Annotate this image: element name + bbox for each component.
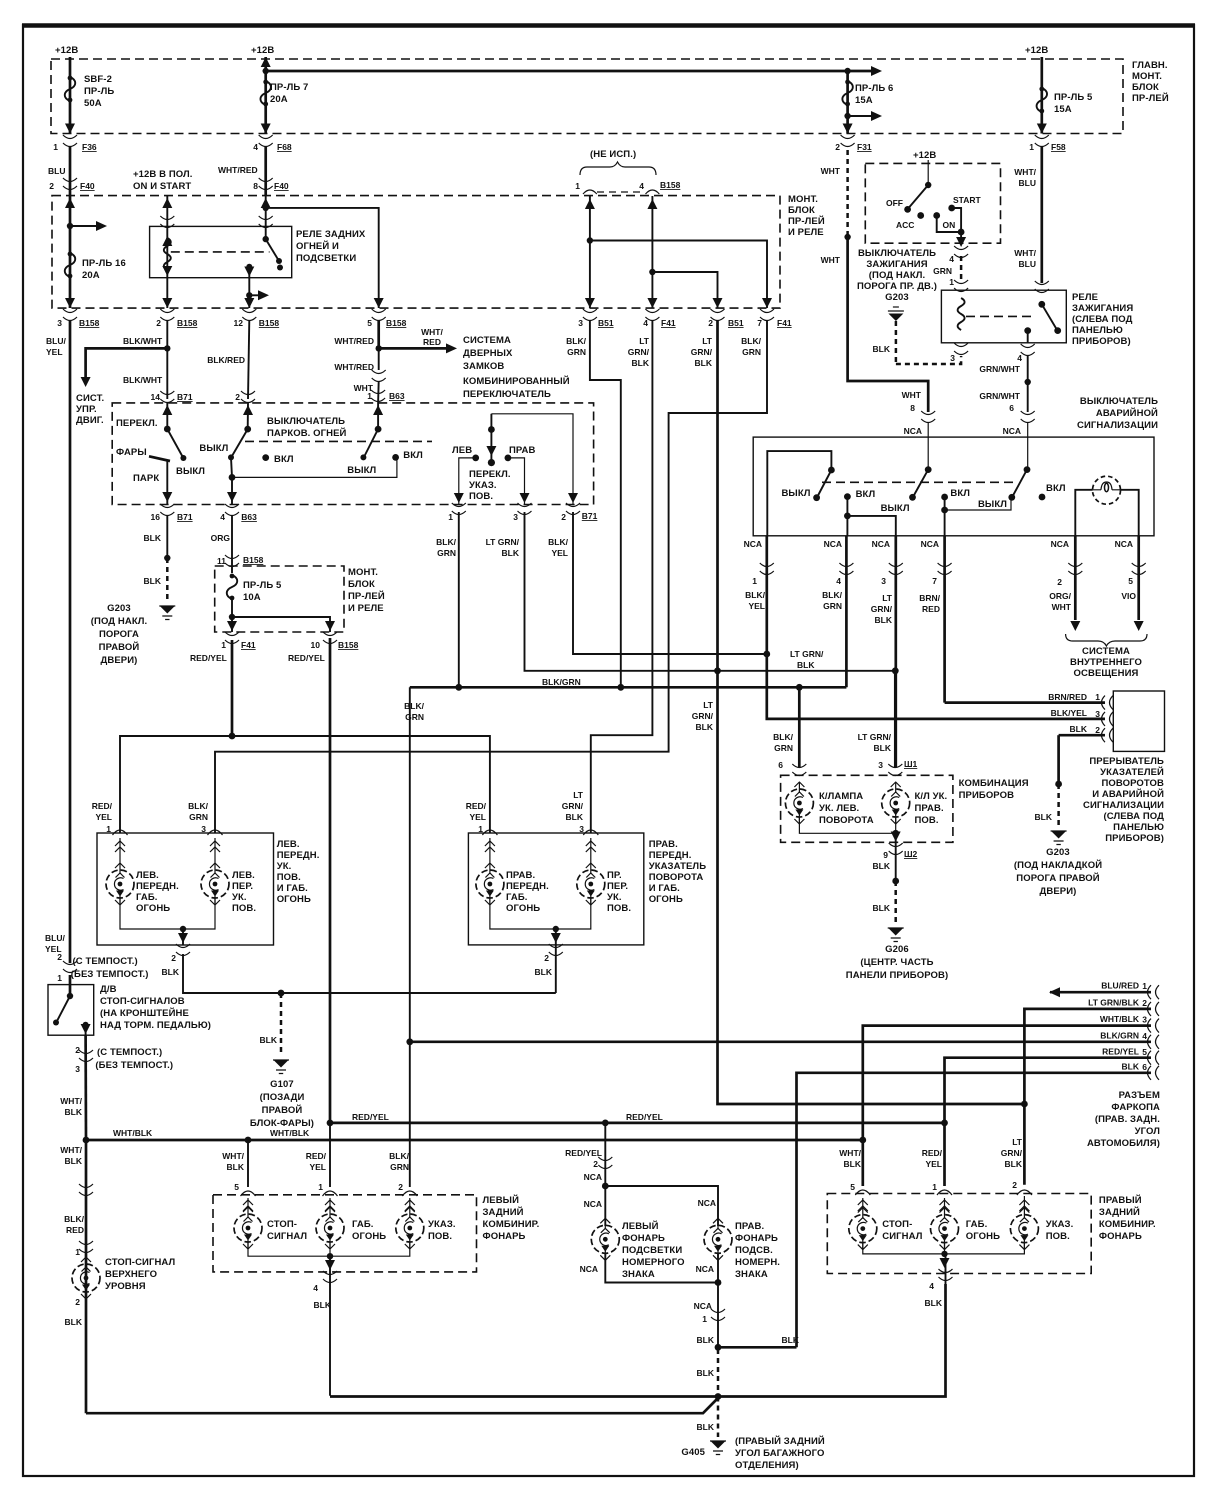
svg-text:BLU: BLU bbox=[1019, 259, 1036, 269]
svg-text:ЗАДНИЙ: ЗАДНИЙ bbox=[1099, 1206, 1140, 1218]
svg-text:УКАЗ.: УКАЗ. bbox=[1046, 1219, 1074, 1230]
svg-text:7: 7 bbox=[757, 318, 762, 328]
svg-text:ВЫКЛЮЧАТЕЛЬ: ВЫКЛЮЧАТЕЛЬ bbox=[267, 416, 345, 427]
svg-text:УРОВНЯ: УРОВНЯ bbox=[105, 1281, 146, 1292]
svg-text:Ш2: Ш2 bbox=[904, 849, 918, 859]
svg-text:ОГОНЬ: ОГОНЬ bbox=[136, 903, 170, 914]
svg-text:G107: G107 bbox=[270, 1079, 294, 1090]
svg-text:F41: F41 bbox=[777, 318, 792, 328]
svg-text:ВЫКЛЮЧАТЕЛЬ: ВЫКЛЮЧАТЕЛЬ bbox=[858, 248, 936, 259]
svg-text:5: 5 bbox=[1128, 576, 1133, 586]
svg-text:4: 4 bbox=[313, 1283, 318, 1293]
svg-text:GRN: GRN bbox=[405, 712, 424, 722]
svg-text:4: 4 bbox=[253, 142, 258, 152]
svg-text:К/ЛАМПА: К/ЛАМПА bbox=[819, 791, 863, 802]
svg-text:ОСВЕЩЕНИЯ: ОСВЕЩЕНИЯ bbox=[1074, 668, 1139, 679]
svg-text:F31: F31 bbox=[857, 142, 872, 152]
svg-text:ВЫКЛ: ВЫКЛ bbox=[881, 503, 910, 514]
svg-text:6: 6 bbox=[1142, 1062, 1147, 1072]
svg-text:ЗНАКА: ЗНАКА bbox=[735, 1269, 768, 1280]
svg-text:WHT: WHT bbox=[821, 255, 841, 265]
svg-text:ПР-ЛЬ 5: ПР-ЛЬ 5 bbox=[1054, 92, 1093, 103]
svg-text:G206: G206 bbox=[885, 944, 909, 955]
svg-text:RED/YEL: RED/YEL bbox=[352, 1112, 389, 1122]
svg-text:УК.: УК. bbox=[277, 861, 292, 872]
svg-text:BLK/WHT: BLK/WHT bbox=[123, 375, 163, 385]
svg-text:ПАРКОВ. ОГНЕЙ: ПАРКОВ. ОГНЕЙ bbox=[267, 427, 347, 439]
svg-text:3: 3 bbox=[578, 318, 583, 328]
svg-text:GRN/: GRN/ bbox=[562, 801, 584, 811]
svg-text:2: 2 bbox=[235, 392, 240, 402]
svg-text:WHT/BLK: WHT/BLK bbox=[1100, 1014, 1140, 1024]
svg-text:BLK: BLK bbox=[632, 358, 650, 368]
svg-text:NCA: NCA bbox=[904, 426, 922, 436]
svg-text:RED/: RED/ bbox=[466, 801, 487, 811]
svg-text:3: 3 bbox=[75, 1064, 80, 1074]
svg-text:НОМЕРНОГО: НОМЕРНОГО bbox=[622, 1257, 685, 1268]
svg-text:ВКЛ: ВКЛ bbox=[403, 450, 423, 461]
svg-text:ПЕР.: ПЕР. bbox=[232, 881, 253, 892]
svg-text:ВЫКЛ: ВЫКЛ bbox=[781, 488, 810, 499]
svg-text:3: 3 bbox=[950, 353, 955, 363]
svg-text:СИГНАЛ: СИГНАЛ bbox=[882, 1231, 922, 1242]
svg-text:OFF: OFF bbox=[886, 198, 903, 208]
svg-text:BLK: BLK bbox=[1005, 1159, 1023, 1169]
svg-text:ПРИБОРОВ): ПРИБОРОВ) bbox=[1105, 833, 1164, 844]
svg-text:WHT/: WHT/ bbox=[1014, 248, 1036, 258]
svg-text:WHT/: WHT/ bbox=[60, 1096, 82, 1106]
svg-text:И ГАБ.: И ГАБ. bbox=[649, 883, 680, 894]
svg-text:ЗАЖИГАНИЯ: ЗАЖИГАНИЯ bbox=[1072, 303, 1133, 314]
svg-text:15A: 15A bbox=[1054, 104, 1072, 115]
svg-text:F40: F40 bbox=[274, 181, 289, 191]
svg-text:4: 4 bbox=[220, 512, 225, 522]
svg-text:3: 3 bbox=[57, 318, 62, 328]
svg-text:ВЫКЛ: ВЫКЛ bbox=[199, 443, 228, 454]
svg-text:2: 2 bbox=[1142, 998, 1147, 1008]
svg-text:МОНТ.: МОНТ. bbox=[788, 194, 818, 205]
svg-text:RED/YEL: RED/YEL bbox=[190, 653, 227, 663]
svg-text:YEL: YEL bbox=[469, 812, 486, 822]
svg-text:BLU: BLU bbox=[1019, 178, 1036, 188]
svg-text:АВАРИЙНОЙ: АВАРИЙНОЙ bbox=[1096, 407, 1158, 419]
svg-text:+12B: +12B bbox=[251, 45, 274, 56]
svg-text:3: 3 bbox=[881, 576, 886, 586]
svg-text:F36: F36 bbox=[82, 142, 97, 152]
svg-text:УК. ЛЕВ.: УК. ЛЕВ. bbox=[819, 803, 859, 814]
svg-text:1: 1 bbox=[1095, 692, 1100, 702]
svg-text:NCA: NCA bbox=[584, 1199, 602, 1209]
svg-text:КОМБИНИРОВАННЫЙ: КОМБИНИРОВАННЫЙ bbox=[463, 375, 570, 387]
svg-text:ВЫКЛЮЧАТЕЛЬ: ВЫКЛЮЧАТЕЛЬ bbox=[1080, 396, 1158, 407]
svg-text:К/Л УК.: К/Л УК. bbox=[915, 791, 948, 802]
svg-text:BLK/: BLK/ bbox=[741, 336, 761, 346]
svg-text:(ПОЗАДИ: (ПОЗАДИ bbox=[260, 1092, 305, 1103]
svg-text:LT GRN/: LT GRN/ bbox=[790, 649, 824, 659]
svg-text:(ПОД НАКЛ.: (ПОД НАКЛ. bbox=[91, 616, 148, 627]
svg-text:ВНУТРЕННЕГО: ВНУТРЕННЕГО bbox=[1070, 657, 1142, 668]
svg-text:(ПРАВ. ЗАДН.: (ПРАВ. ЗАДН. bbox=[1095, 1114, 1160, 1125]
svg-text:B158: B158 bbox=[386, 318, 407, 328]
svg-text:NCA: NCA bbox=[1003, 426, 1021, 436]
svg-text:ПР-ЛЬ 16: ПР-ЛЬ 16 bbox=[82, 258, 126, 269]
svg-text:BLK/: BLK/ bbox=[404, 701, 424, 711]
svg-text:ПОВ.: ПОВ. bbox=[428, 1231, 452, 1242]
svg-text:1: 1 bbox=[949, 277, 954, 287]
svg-text:ORG/: ORG/ bbox=[1049, 591, 1071, 601]
svg-text:+12B: +12B bbox=[55, 45, 78, 56]
svg-text:КОМБИНИР.: КОМБИНИР. bbox=[483, 1219, 540, 1230]
svg-text:СИГНАЛИЗАЦИИ: СИГНАЛИЗАЦИИ bbox=[1083, 800, 1164, 811]
svg-text:GRN: GRN bbox=[567, 347, 586, 357]
svg-text:LT: LT bbox=[703, 700, 714, 710]
svg-text:12: 12 bbox=[234, 318, 244, 328]
svg-text:1: 1 bbox=[318, 1182, 323, 1192]
svg-text:ON: ON bbox=[943, 220, 956, 230]
svg-text:BLK/GRN: BLK/GRN bbox=[1100, 1031, 1139, 1041]
svg-text:5: 5 bbox=[367, 318, 372, 328]
svg-text:YEL: YEL bbox=[551, 548, 568, 558]
svg-text:1: 1 bbox=[106, 824, 111, 834]
svg-text:ACC: ACC bbox=[896, 220, 914, 230]
svg-text:F58: F58 bbox=[1051, 142, 1066, 152]
svg-text:BLK: BLK bbox=[227, 1162, 245, 1172]
svg-text:2: 2 bbox=[593, 1159, 598, 1169]
svg-text:ДВЕРИ): ДВЕРИ) bbox=[1040, 886, 1077, 897]
svg-text:ПЕРЕДН.: ПЕРЕДН. bbox=[506, 881, 549, 892]
svg-text:RED/YEL: RED/YEL bbox=[1102, 1047, 1139, 1057]
svg-text:BLK/: BLK/ bbox=[64, 1214, 84, 1224]
svg-text:BLK/GRN: BLK/GRN bbox=[542, 677, 581, 687]
svg-text:СИСТЕМА: СИСТЕМА bbox=[1082, 646, 1130, 657]
svg-text:ГАБ.: ГАБ. bbox=[352, 1219, 374, 1230]
svg-text:ПРАВОЙ: ПРАВОЙ bbox=[99, 641, 140, 653]
svg-text:2: 2 bbox=[1095, 725, 1100, 735]
svg-text:RED/: RED/ bbox=[92, 801, 113, 811]
svg-text:GRN: GRN bbox=[390, 1162, 409, 1172]
svg-text:BLK: BLK bbox=[144, 576, 162, 586]
svg-text:ПОВ.: ПОВ. bbox=[1046, 1231, 1070, 1242]
svg-text:УГОЛ БАГАЖНОГО: УГОЛ БАГАЖНОГО bbox=[735, 1448, 825, 1459]
svg-text:ДВЕРНЫХ: ДВЕРНЫХ bbox=[463, 348, 513, 359]
svg-text:СИГНАЛИЗАЦИИ: СИГНАЛИЗАЦИИ bbox=[1077, 420, 1158, 431]
svg-text:+12B В ПОЛ.: +12B В ПОЛ. bbox=[133, 169, 193, 180]
svg-text:ПОРОГА ПРАВОЙ: ПОРОГА ПРАВОЙ bbox=[1016, 872, 1100, 884]
svg-text:NCA: NCA bbox=[584, 1172, 602, 1182]
svg-text:ВЫКЛ: ВЫКЛ bbox=[176, 466, 205, 477]
svg-text:4: 4 bbox=[639, 181, 644, 191]
svg-text:BRN/RED: BRN/RED bbox=[1048, 692, 1087, 702]
svg-text:3: 3 bbox=[513, 512, 518, 522]
svg-text:В63: В63 bbox=[389, 391, 405, 401]
svg-text:И ГАБ.: И ГАБ. bbox=[277, 883, 308, 894]
svg-text:BLK/YEL: BLK/YEL bbox=[1051, 708, 1087, 718]
svg-text:14: 14 bbox=[151, 392, 161, 402]
svg-text:ОГОНЬ: ОГОНЬ bbox=[966, 1231, 1000, 1242]
svg-text:NCA: NCA bbox=[698, 1198, 716, 1208]
svg-text:СИСТ.: СИСТ. bbox=[76, 393, 104, 404]
svg-text:2: 2 bbox=[75, 1297, 80, 1307]
svg-text:BLK: BLK bbox=[144, 533, 162, 543]
svg-text:GRN/: GRN/ bbox=[871, 604, 893, 614]
svg-text:1: 1 bbox=[448, 512, 453, 522]
svg-text:ЛЕВ.: ЛЕВ. bbox=[277, 839, 300, 850]
svg-text:WHT/RED: WHT/RED bbox=[334, 336, 374, 346]
svg-text:NCA: NCA bbox=[921, 539, 939, 549]
svg-text:RED/YEL: RED/YEL bbox=[288, 653, 325, 663]
svg-text:СТОП-СИГНАЛ: СТОП-СИГНАЛ bbox=[105, 1257, 175, 1268]
svg-text:1: 1 bbox=[57, 973, 62, 983]
svg-text:ЛЕВЫЙ: ЛЕВЫЙ bbox=[483, 1194, 520, 1206]
svg-text:BLK/: BLK/ bbox=[436, 537, 456, 547]
svg-text:F41: F41 bbox=[661, 318, 676, 328]
svg-text:BLU/: BLU/ bbox=[45, 933, 65, 943]
svg-text:WHT/RED: WHT/RED bbox=[218, 165, 258, 175]
svg-text:2: 2 bbox=[57, 952, 62, 962]
svg-text:YEL: YEL bbox=[95, 812, 112, 822]
svg-text:9: 9 bbox=[883, 850, 888, 860]
svg-text:ЛЕВ.: ЛЕВ. bbox=[136, 870, 159, 881]
svg-text:ПАНЕЛИ ПРИБОРОВ): ПАНЕЛИ ПРИБОРОВ) bbox=[846, 970, 948, 981]
svg-text:GRN/WHT: GRN/WHT bbox=[979, 364, 1020, 374]
svg-text:ФОНАРЬ: ФОНАРЬ bbox=[735, 1233, 778, 1244]
svg-text:+12B: +12B bbox=[1025, 45, 1048, 56]
svg-text:ПОДСВЕТКИ: ПОДСВЕТКИ bbox=[622, 1245, 682, 1256]
svg-text:1: 1 bbox=[1029, 142, 1034, 152]
svg-text:ПЕРЕКЛ.: ПЕРЕКЛ. bbox=[116, 418, 158, 429]
svg-text:GRN: GRN bbox=[823, 601, 842, 611]
svg-text:WHT/: WHT/ bbox=[1014, 167, 1036, 177]
svg-text:ФАРКОПА: ФАРКОПА bbox=[1111, 1102, 1160, 1113]
svg-text:6: 6 bbox=[1009, 403, 1014, 413]
svg-text:ЛЕВЫЙ: ЛЕВЫЙ bbox=[622, 1220, 659, 1232]
svg-text:G405: G405 bbox=[681, 1447, 705, 1458]
svg-text:ПАНЕЛЬЮ: ПАНЕЛЬЮ bbox=[1072, 325, 1123, 336]
svg-text:RED/YEL: RED/YEL bbox=[565, 1148, 602, 1158]
svg-text:3: 3 bbox=[201, 824, 206, 834]
svg-text:1: 1 bbox=[932, 1182, 937, 1192]
svg-text:BLK: BLK bbox=[1035, 812, 1053, 822]
svg-text:УКАЗ.: УКАЗ. bbox=[428, 1219, 456, 1230]
svg-text:ON И START: ON И START bbox=[133, 181, 191, 192]
svg-text:МОНТ.: МОНТ. bbox=[1132, 71, 1162, 82]
svg-text:B158: B158 bbox=[338, 640, 359, 650]
svg-text:ОГОНЬ: ОГОНЬ bbox=[506, 903, 540, 914]
svg-text:RED/: RED/ bbox=[306, 1151, 327, 1161]
svg-text:КОМБИНАЦИЯ: КОМБИНАЦИЯ bbox=[959, 778, 1029, 789]
svg-text:УГОЛ: УГОЛ bbox=[1135, 1126, 1161, 1137]
svg-text:10: 10 bbox=[311, 640, 321, 650]
svg-text:BLK: BLK bbox=[873, 861, 891, 871]
svg-text:2: 2 bbox=[544, 953, 549, 963]
svg-text:ПРИБОРОВ): ПРИБОРОВ) bbox=[1072, 336, 1131, 347]
svg-text:BLK/RED: BLK/RED bbox=[207, 355, 245, 365]
svg-text:МОНТ.: МОНТ. bbox=[348, 567, 378, 578]
svg-text:(НЕ ИСП.): (НЕ ИСП.) bbox=[590, 149, 636, 160]
svg-text:GRN/: GRN/ bbox=[692, 711, 714, 721]
svg-text:1: 1 bbox=[75, 1247, 80, 1257]
svg-text:ОГНЕЙ И: ОГНЕЙ И bbox=[296, 240, 339, 252]
svg-text:(С ТЕМПОСТ.): (С ТЕМПОСТ.) bbox=[73, 956, 138, 967]
svg-text:G203: G203 bbox=[107, 603, 131, 614]
svg-text:BLK: BLK bbox=[873, 344, 891, 354]
svg-text:ПР-ЛЕЙ: ПР-ЛЕЙ bbox=[348, 590, 385, 602]
svg-text:2: 2 bbox=[398, 1182, 403, 1192]
svg-text:B158: B158 bbox=[243, 555, 264, 565]
svg-text:BLK/: BLK/ bbox=[548, 537, 568, 547]
svg-text:GRN: GRN bbox=[742, 347, 761, 357]
svg-text:BLK: BLK bbox=[697, 1335, 715, 1345]
svg-text:2: 2 bbox=[156, 318, 161, 328]
svg-text:ЗАЖИГАНИЯ: ЗАЖИГАНИЯ bbox=[866, 259, 927, 270]
svg-text:4: 4 bbox=[1017, 353, 1022, 363]
svg-text:ПОВОРОТА: ПОВОРОТА bbox=[819, 815, 874, 826]
svg-text:BLK: BLK bbox=[502, 548, 520, 558]
svg-text:(ПОД НАКЛ.: (ПОД НАКЛ. bbox=[869, 270, 926, 281]
svg-text:ПРАВОЙ: ПРАВОЙ bbox=[262, 1104, 303, 1116]
svg-text:ПОДСВЕТКИ: ПОДСВЕТКИ bbox=[296, 253, 356, 264]
svg-text:BLK: BLK bbox=[875, 615, 893, 625]
svg-text:GRN/: GRN/ bbox=[1001, 1148, 1023, 1158]
svg-text:1: 1 bbox=[752, 576, 757, 586]
svg-text:(БЕЗ ТЕМПОСТ.): (БЕЗ ТЕМПОСТ.) bbox=[95, 1060, 173, 1071]
svg-text:ФОНАРЬ: ФОНАРЬ bbox=[483, 1231, 526, 1242]
svg-text:В71: В71 bbox=[177, 392, 193, 402]
svg-text:ПР-ЛЬ 7: ПР-ЛЬ 7 bbox=[270, 82, 308, 93]
svg-text:ПОВ.: ПОВ. bbox=[277, 872, 301, 883]
svg-text:2: 2 bbox=[1057, 577, 1062, 587]
svg-text:10A: 10A bbox=[243, 592, 261, 603]
svg-text:BLK: BLK bbox=[1122, 1062, 1140, 1072]
svg-text:ГАБ.: ГАБ. bbox=[136, 892, 158, 903]
svg-text:ГАБ.: ГАБ. bbox=[966, 1219, 988, 1230]
svg-text:ПОРОГА: ПОРОГА bbox=[99, 629, 139, 640]
svg-text:ОГОНЬ: ОГОНЬ bbox=[649, 894, 683, 905]
svg-text:GRN: GRN bbox=[437, 548, 456, 558]
svg-text:(СЛЕВА ПОД: (СЛЕВА ПОД bbox=[1103, 811, 1164, 822]
svg-text:BLK/: BLK/ bbox=[566, 336, 586, 346]
svg-text:LT GRN/: LT GRN/ bbox=[858, 732, 892, 742]
svg-text:3: 3 bbox=[579, 824, 584, 834]
svg-text:ЛЕВ.: ЛЕВ. bbox=[232, 870, 255, 881]
svg-text:GRN/WHT: GRN/WHT bbox=[979, 391, 1020, 401]
svg-text:B158: B158 bbox=[177, 318, 198, 328]
svg-text:LT: LT bbox=[573, 790, 584, 800]
svg-text:B51: B51 bbox=[728, 318, 744, 328]
svg-text:+12B: +12B bbox=[913, 150, 936, 161]
svg-text:F40: F40 bbox=[80, 181, 95, 191]
svg-text:РАЗЪЕМ: РАЗЪЕМ bbox=[1119, 1090, 1160, 1101]
svg-text:ОТДЕЛЕНИЯ): ОТДЕЛЕНИЯ) bbox=[735, 1460, 799, 1471]
svg-text:1: 1 bbox=[367, 391, 372, 401]
svg-text:ФАРЫ: ФАРЫ bbox=[116, 447, 147, 458]
svg-text:RED/: RED/ bbox=[922, 1148, 943, 1158]
svg-text:ГЛАВН.: ГЛАВН. bbox=[1132, 60, 1168, 71]
svg-text:СИГНАЛ: СИГНАЛ bbox=[267, 1231, 307, 1242]
svg-text:1: 1 bbox=[221, 640, 226, 650]
svg-text:SBF-2: SBF-2 bbox=[84, 74, 112, 85]
svg-text:GRN: GRN bbox=[933, 266, 952, 276]
svg-text:СТОП-СИГНАЛОВ: СТОП-СИГНАЛОВ bbox=[100, 996, 185, 1007]
svg-text:NCA: NCA bbox=[744, 539, 762, 549]
svg-text:LT: LT bbox=[882, 593, 893, 603]
svg-text:BLK: BLK bbox=[65, 1317, 83, 1327]
svg-text:YEL: YEL bbox=[46, 347, 63, 357]
svg-text:WHT/: WHT/ bbox=[222, 1151, 244, 1161]
svg-text:СТОП-: СТОП- bbox=[882, 1219, 912, 1230]
svg-text:BLK: BLK bbox=[874, 743, 892, 753]
svg-text:ПР-ЛЕЙ: ПР-ЛЕЙ bbox=[788, 215, 825, 227]
svg-text:WHT: WHT bbox=[902, 390, 922, 400]
svg-text:1: 1 bbox=[1142, 981, 1147, 991]
svg-text:20A: 20A bbox=[82, 270, 100, 281]
svg-text:WHT/: WHT/ bbox=[421, 327, 443, 337]
svg-text:BLK/: BLK/ bbox=[188, 801, 208, 811]
svg-text:ПРЕРЫВАТЕЛЬ: ПРЕРЫВАТЕЛЬ bbox=[1089, 756, 1164, 767]
svg-text:ПРАВЫЙ: ПРАВЫЙ bbox=[1099, 1194, 1142, 1206]
svg-text:BLK: BLK bbox=[314, 1300, 332, 1310]
svg-text:NCA: NCA bbox=[580, 1264, 598, 1274]
svg-text:BLU: BLU bbox=[48, 166, 65, 176]
svg-text:6: 6 bbox=[778, 760, 783, 770]
svg-text:ВЫКЛ: ВЫКЛ bbox=[347, 465, 376, 476]
svg-text:УК.: УК. bbox=[232, 892, 247, 903]
svg-text:LT GRN/: LT GRN/ bbox=[486, 537, 520, 547]
svg-text:B158: B158 bbox=[79, 318, 100, 328]
svg-text:ПЕР.: ПЕР. bbox=[607, 881, 628, 892]
svg-text:ВЫКЛ: ВЫКЛ bbox=[978, 499, 1007, 510]
svg-text:СИСТЕМА: СИСТЕМА bbox=[463, 335, 511, 346]
svg-text:В63: В63 bbox=[241, 512, 257, 522]
svg-text:2: 2 bbox=[171, 953, 176, 963]
svg-text:YEL: YEL bbox=[925, 1159, 942, 1169]
svg-text:BLK/: BLK/ bbox=[389, 1151, 409, 1161]
svg-text:ПРАВ.: ПРАВ. bbox=[735, 1221, 764, 1232]
svg-text:ПОВ.: ПОВ. bbox=[915, 815, 939, 826]
svg-text:В71: В71 bbox=[177, 512, 193, 522]
svg-text:F68: F68 bbox=[277, 142, 292, 152]
svg-text:ПОДСВ.: ПОДСВ. bbox=[735, 1245, 773, 1256]
svg-text:4: 4 bbox=[643, 318, 648, 328]
svg-text:RED: RED bbox=[66, 1225, 84, 1235]
svg-text:WHT/RED: WHT/RED bbox=[334, 362, 374, 372]
svg-text:5: 5 bbox=[234, 1182, 239, 1192]
svg-text:YEL: YEL bbox=[748, 601, 765, 611]
svg-text:ПРАВ.: ПРАВ. bbox=[649, 839, 678, 850]
svg-text:УК.: УК. bbox=[607, 892, 622, 903]
svg-text:WHT/: WHT/ bbox=[60, 1145, 82, 1155]
svg-text:ВКЛ: ВКЛ bbox=[1046, 483, 1066, 494]
svg-text:ГАБ.: ГАБ. bbox=[506, 892, 528, 903]
svg-text:ВКЛ: ВКЛ bbox=[274, 454, 294, 465]
svg-text:RED: RED bbox=[922, 604, 940, 614]
svg-text:BLU/: BLU/ bbox=[46, 336, 66, 346]
svg-text:GRN/: GRN/ bbox=[691, 347, 713, 357]
svg-text:WHT/: WHT/ bbox=[839, 1148, 861, 1158]
svg-text:УКАЗАТЕЛЕЙ: УКАЗАТЕЛЕЙ bbox=[1100, 766, 1164, 778]
svg-text:ПР-ЛЬ: ПР-ЛЬ bbox=[84, 86, 114, 97]
svg-text:YEL: YEL bbox=[309, 1162, 326, 1172]
svg-text:NCA: NCA bbox=[872, 539, 890, 549]
svg-text:РЕЛЕ: РЕЛЕ bbox=[1072, 292, 1098, 303]
svg-text:ПЕРЕКЛ.: ПЕРЕКЛ. bbox=[469, 469, 511, 480]
svg-text:3: 3 bbox=[1095, 709, 1100, 719]
svg-text:BLK: BLK bbox=[873, 903, 891, 913]
svg-text:ВЕРХНЕГО: ВЕРХНЕГО bbox=[105, 1269, 157, 1280]
svg-text:3: 3 bbox=[878, 760, 883, 770]
svg-text:ПЕРЕДН.: ПЕРЕДН. bbox=[136, 881, 179, 892]
svg-text:ПАНЕЛЬЮ: ПАНЕЛЬЮ bbox=[1113, 822, 1164, 833]
